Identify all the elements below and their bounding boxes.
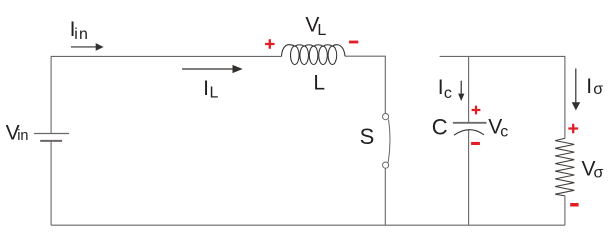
minus sign (red) at inductor right [349, 41, 358, 44]
capacitor C curved plate [454, 130, 484, 136]
wire switch bottom to bottom rail [384, 168, 386, 225]
battery Vin short plate [40, 140, 62, 142]
plus sign (red) at capacitor [472, 106, 481, 115]
switch S arm [388, 119, 390, 162]
minus sign (red) at capacitor [471, 142, 480, 145]
svg-text:C: C [432, 114, 448, 139]
inductor L coil [282, 45, 346, 65]
wire left vertical + top rail to inductor [51, 56, 281, 133]
battery Vin long plate [34, 133, 69, 135]
arrow IL [182, 65, 243, 73]
plus sign (red) at resistor top [568, 124, 578, 134]
wire battery bottom to bottom rail [50, 141, 52, 225]
plus sign (red) at inductor left [265, 39, 274, 48]
switch S top contact circle [383, 114, 389, 120]
resistor Rsigma zigzag [555, 138, 574, 196]
wire capacitor top rail to resistor top [440, 56, 565, 138]
wire resistor bottom stub [564, 196, 566, 225]
capacitor C top plate [453, 122, 487, 124]
arrow Ic [458, 81, 464, 101]
wire capacitor top stub [468, 56, 470, 122]
switch S bottom contact circle [383, 162, 389, 168]
arrow Isigma [572, 69, 581, 111]
wire bottom rail [51, 224, 565, 226]
minus sign (red) at resistor bottom [570, 203, 578, 207]
arrow Iin [71, 43, 104, 51]
wire inductor right to switch top [345, 56, 385, 113]
wire capacitor bottom stub [468, 130, 470, 225]
svg-text:S: S [360, 124, 375, 149]
svg-text:L: L [313, 72, 325, 95]
